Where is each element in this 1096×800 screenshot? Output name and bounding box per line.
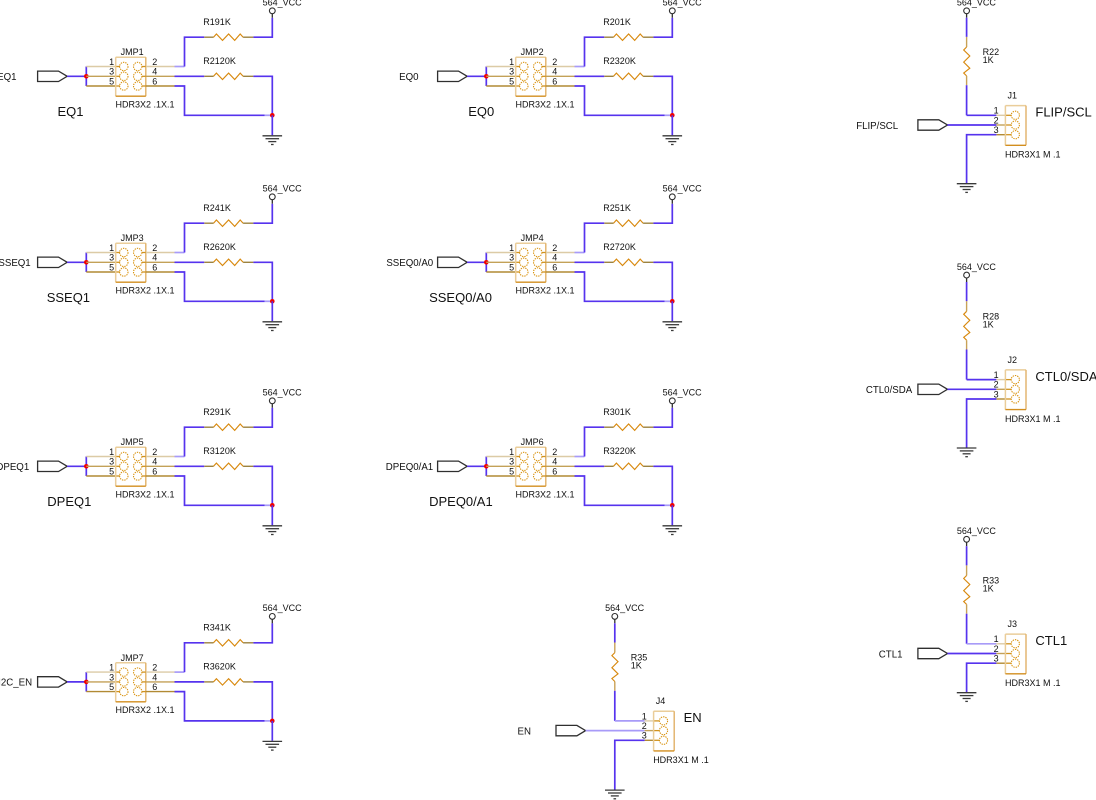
svg-text:3: 3 <box>994 125 999 135</box>
wire JMP6 pin 6 lead <box>542 475 546 477</box>
wire JMP5 pin 4 to resistor R31 <box>175 465 205 467</box>
svg-text:3: 3 <box>994 389 999 399</box>
wire EQ1 port to junction <box>67 75 86 77</box>
wire SSEQ1 port to junction <box>67 261 86 263</box>
svg-text:5: 5 <box>109 262 114 272</box>
resistor R30 1K <box>604 424 653 430</box>
svg-text:3: 3 <box>509 457 514 467</box>
wire JMP5 pin 3 lead <box>86 465 115 467</box>
port CTL1 <box>918 648 948 658</box>
wire R31 to ground junction <box>253 466 272 505</box>
svg-text:3: 3 <box>109 457 114 467</box>
svg-text:J3: J3 <box>1008 619 1018 629</box>
svg-text:R301K: R301K <box>603 407 631 417</box>
wire JMP3 pin 6 down run <box>175 272 265 301</box>
svg-text:2: 2 <box>152 663 157 673</box>
svg-text:R3120K: R3120K <box>203 446 236 456</box>
wire JMP5 pin 2 up to resistor row <box>185 427 205 456</box>
wire J3 pin 3 lead <box>996 662 1005 664</box>
wire JMP1 pin 4 lead <box>142 75 146 77</box>
wire R29 to power <box>253 408 272 428</box>
wire JMP7 pin 1 lead <box>86 671 115 673</box>
wire R23 to ground junction <box>653 76 672 115</box>
svg-text:5: 5 <box>109 682 114 692</box>
wire JMP1 pin 6 lead <box>142 85 146 87</box>
wire power to resistor R22 <box>966 18 968 37</box>
svg-text:6: 6 <box>152 682 157 692</box>
svg-text:2: 2 <box>994 115 999 125</box>
svg-text:2: 2 <box>994 644 999 654</box>
svg-text:3: 3 <box>109 253 114 263</box>
pin numbers JMP4 <box>509 243 557 273</box>
svg-text:1K: 1K <box>983 319 994 329</box>
svg-text:R251K: R251K <box>603 203 631 213</box>
svg-text:4: 4 <box>552 253 557 263</box>
svg-text:R2320K: R2320K <box>603 56 636 66</box>
svg-text:JMP1: JMP1 <box>121 47 144 57</box>
resistor R22 1K <box>964 37 970 85</box>
wire EQ0 port to junction <box>467 75 486 77</box>
wire R32 to ground junction <box>653 466 672 505</box>
svg-text:3: 3 <box>642 731 647 741</box>
wire JMP1 pin 4 to resistor R21 <box>175 75 205 77</box>
svg-text:4: 4 <box>152 253 157 263</box>
wire J4 pin 3 lead <box>645 739 654 741</box>
ground <box>263 322 283 331</box>
wire JMP4 pin 5 lead <box>486 271 515 273</box>
resistor R19 1K <box>204 34 253 40</box>
wire resistor R33 down to pin 1 row <box>966 614 968 644</box>
wire power to resistor R33 <box>966 546 968 565</box>
svg-text:3: 3 <box>509 253 514 263</box>
wire resistor R22 down to pin 1 row <box>966 85 968 115</box>
pin numbers J4 <box>642 711 647 740</box>
svg-text:DPEQ1: DPEQ1 <box>47 494 91 509</box>
svg-text:EQ1: EQ1 <box>58 104 84 119</box>
svg-text:R3220K: R3220K <box>603 446 636 456</box>
svg-text:3: 3 <box>994 654 999 664</box>
wire JMP6 pin 2 lead <box>542 456 546 458</box>
wire JMP4 pin 2 lead <box>542 252 546 254</box>
svg-text:CTL0/SDA: CTL0/SDA <box>866 385 913 396</box>
svg-text:2: 2 <box>552 447 557 457</box>
wire JMP2 pin 5 lead <box>486 85 515 87</box>
pin numbers J2 <box>994 370 999 399</box>
wire J3 pin 3 to ground <box>967 663 997 692</box>
wire R30 to power <box>653 408 672 428</box>
header JMP2 <box>516 57 546 96</box>
svg-text:JMP2: JMP2 <box>521 47 544 57</box>
svg-text:2: 2 <box>552 57 557 67</box>
power symbol 564_VCC <box>957 526 997 546</box>
wire J1 pin 2 lead <box>996 124 1005 126</box>
wire into ground junction <box>265 300 272 302</box>
svg-text:2: 2 <box>152 57 157 67</box>
ground <box>663 526 683 535</box>
port DPEQ1 <box>38 461 68 471</box>
svg-text:564_VCC: 564_VCC <box>263 184 303 194</box>
wire JMP5 pin 1 lead <box>86 456 115 458</box>
svg-text:HDR3X2 .1X.1: HDR3X2 .1X.1 <box>116 286 175 296</box>
svg-text:3: 3 <box>109 67 114 77</box>
ground <box>957 693 977 702</box>
wire JMP4 pin 6 lead <box>542 271 546 273</box>
wire JMP3 pin 6 lead <box>142 271 146 273</box>
wire J4 pin 2 lead <box>645 730 654 732</box>
svg-text:HDR3X1 M .1: HDR3X1 M .1 <box>1005 414 1061 424</box>
port I2C_EN <box>38 677 68 687</box>
svg-text:I2C_EN: I2C_EN <box>0 678 32 689</box>
svg-text:6: 6 <box>152 76 157 86</box>
svg-text:2: 2 <box>552 243 557 253</box>
svg-text:1: 1 <box>509 447 514 457</box>
junction node I2C_EN <box>84 680 89 685</box>
junction ground node EQ0 <box>670 113 675 118</box>
wire JMP2 pin 6 lead <box>542 85 546 87</box>
svg-text:1: 1 <box>994 106 999 116</box>
svg-text:1: 1 <box>994 634 999 644</box>
resistor R27 20K <box>604 259 653 265</box>
svg-text:1K: 1K <box>983 584 994 594</box>
wire into ground junction <box>265 114 272 116</box>
wire into ground junction <box>665 114 672 116</box>
resistor R36 20K <box>204 679 253 685</box>
svg-text:5: 5 <box>109 76 114 86</box>
svg-text:EQ1: EQ1 <box>0 72 17 83</box>
svg-text:R191K: R191K <box>203 17 231 27</box>
port EN <box>556 725 586 735</box>
header JMP5 <box>116 447 146 486</box>
wire EQ1 input riser <box>85 67 87 87</box>
svg-text:2: 2 <box>152 447 157 457</box>
svg-text:564_VCC: 564_VCC <box>605 603 645 613</box>
header J2 <box>1005 370 1026 410</box>
wire J2 pin 2 lead <box>996 388 1005 390</box>
resistor R31 20K <box>204 463 253 469</box>
port CTL0/SDA <box>918 384 948 394</box>
svg-text:5: 5 <box>509 262 514 272</box>
power symbol 564_VCC <box>605 603 645 623</box>
pin numbers JMP5 <box>109 447 157 477</box>
power symbol 564_VCC <box>663 184 703 204</box>
svg-text:J4: J4 <box>656 696 666 706</box>
resistor R32 20K <box>604 463 653 469</box>
resistor R20 1K <box>604 34 653 40</box>
wire EQ0 input riser <box>485 67 487 87</box>
wire J2 pin 3 lead <box>996 398 1005 400</box>
wire JMP7 pin 6 lead <box>142 691 146 693</box>
junction ground node SSEQ0/A0 <box>670 299 675 304</box>
power symbol 564_VCC <box>957 262 997 282</box>
wire JMP4 pin 4 lead <box>542 261 546 263</box>
wire JMP2 pin 1 lead <box>486 66 515 68</box>
svg-text:1: 1 <box>109 243 114 253</box>
pin numbers JMP2 <box>509 57 557 87</box>
wire JMP2 pin 4 to resistor R23 <box>575 75 605 77</box>
svg-text:HDR3X1 M .1: HDR3X1 M .1 <box>1005 678 1061 688</box>
wire R20 to power <box>653 18 672 38</box>
wire I2C_EN input riser <box>85 672 87 692</box>
svg-text:564_VCC: 564_VCC <box>957 262 997 272</box>
ground <box>605 790 625 799</box>
svg-text:1K: 1K <box>983 55 994 65</box>
wire J3 pin 2 lead <box>996 653 1005 655</box>
svg-text:1: 1 <box>509 57 514 67</box>
svg-text:564_VCC: 564_VCC <box>663 0 703 8</box>
wire JMP3 pin 5 lead <box>86 271 115 273</box>
junction node EQ0 <box>484 74 489 79</box>
wire R26 to ground junction <box>253 262 272 301</box>
wire JMP1 pin 1 lead <box>86 66 115 68</box>
svg-text:3: 3 <box>509 67 514 77</box>
svg-text:R341K: R341K <box>203 623 231 633</box>
svg-text:DPEQ0/A1: DPEQ0/A1 <box>429 494 493 509</box>
pin numbers J3 <box>994 634 999 663</box>
junction node EQ1 <box>84 74 89 79</box>
header J3 <box>1005 634 1026 674</box>
wire JMP4 pin 2 stub <box>575 252 585 254</box>
header JMP6 <box>516 447 546 486</box>
wire JMP1 pin 2 up to resistor row <box>185 37 205 66</box>
resistor R33 1K <box>964 565 970 613</box>
wire DPEQ0/A1 input riser <box>485 457 487 477</box>
wire into ground junction <box>665 300 672 302</box>
wire JMP5 pin 2 lead <box>142 456 146 458</box>
wire resistor R28 down to pin 1 row <box>966 350 968 380</box>
power symbol 564_VCC <box>957 0 997 18</box>
svg-text:J1: J1 <box>1008 91 1018 101</box>
wire JMP7 pin 4 lead <box>142 681 146 683</box>
svg-text:564_VCC: 564_VCC <box>263 0 303 8</box>
svg-text:1: 1 <box>109 57 114 67</box>
wire DPEQ1 port to junction <box>67 465 86 467</box>
svg-text:JMP6: JMP6 <box>521 437 544 447</box>
wire CTL0/SDA port to J2 pin 2 <box>948 388 997 390</box>
ground <box>263 136 283 145</box>
wire into ground junction <box>265 720 272 722</box>
wire power to resistor R35 <box>614 623 616 642</box>
svg-text:SSEQ0/A0: SSEQ0/A0 <box>386 258 433 269</box>
wire JMP6 pin 6 down run <box>575 476 665 505</box>
junction ground node DPEQ1 <box>270 503 275 508</box>
power symbol 564_VCC <box>663 388 703 408</box>
svg-text:4: 4 <box>152 67 157 77</box>
svg-text:DPEQ1: DPEQ1 <box>0 462 29 473</box>
resistor R25 1K <box>604 220 653 226</box>
ground <box>263 526 283 535</box>
svg-text:3: 3 <box>109 672 114 682</box>
wire to J2 pin 1 <box>967 379 997 381</box>
wire JMP3 pin 2 up to resistor row <box>185 223 205 252</box>
wire JMP6 pin 4 lead <box>542 465 546 467</box>
resistor R24 1K <box>204 220 253 226</box>
wire R24 to power <box>253 204 272 224</box>
wire R25 to power <box>653 204 672 224</box>
port SSEQ0/A0 <box>438 257 468 267</box>
wire CTL1 port to J3 pin 2 <box>948 653 997 655</box>
svg-text:HDR3X2 .1X.1: HDR3X2 .1X.1 <box>516 100 575 110</box>
junction node SSEQ1 <box>84 260 89 265</box>
svg-text:HDR3X1 M .1: HDR3X1 M .1 <box>1005 150 1061 160</box>
wire J1 pin 3 to ground <box>967 135 997 184</box>
wire JMP3 pin 3 lead <box>86 261 115 263</box>
wire power to resistor R28 <box>966 282 968 301</box>
svg-text:1: 1 <box>994 370 999 380</box>
power symbol 564_VCC <box>263 0 303 18</box>
svg-text:HDR3X2 .1X.1: HDR3X2 .1X.1 <box>116 100 175 110</box>
wire SSEQ1 input riser <box>85 253 87 273</box>
wire JMP5 pin 6 down run <box>175 476 265 505</box>
resistor R35 1K <box>612 643 618 691</box>
svg-text:HDR3X2 .1X.1: HDR3X2 .1X.1 <box>116 490 175 500</box>
resistor R34 1K <box>204 640 253 646</box>
wire I2C_EN port to junction <box>67 681 86 683</box>
wire into ground junction <box>265 504 272 506</box>
header JMP3 <box>116 243 146 282</box>
wire junction to ground <box>271 115 273 135</box>
svg-text:6: 6 <box>552 76 557 86</box>
resistor R21 20K <box>204 73 253 79</box>
wire JMP2 pin 2 lead <box>542 66 546 68</box>
svg-text:2: 2 <box>642 721 647 731</box>
junction ground node DPEQ0/A1 <box>670 503 675 508</box>
wire JMP7 pin 3 lead <box>86 681 115 683</box>
svg-text:6: 6 <box>152 262 157 272</box>
svg-text:4: 4 <box>152 457 157 467</box>
port EQ0 <box>438 71 468 81</box>
wire JMP3 pin 2 lead <box>142 252 146 254</box>
svg-text:R2620K: R2620K <box>203 242 236 252</box>
svg-text:6: 6 <box>552 466 557 476</box>
wire JMP7 pin 6 down run <box>175 692 265 721</box>
svg-text:FLIP/SCL: FLIP/SCL <box>1035 105 1091 120</box>
svg-text:SSEQ0/A0: SSEQ0/A0 <box>429 290 492 305</box>
wire JMP6 pin 5 lead <box>486 475 515 477</box>
junction ground node SSEQ1 <box>270 299 275 304</box>
junction node DPEQ1 <box>84 464 89 469</box>
wire JMP4 pin 1 lead <box>486 252 515 254</box>
svg-text:J2: J2 <box>1008 355 1018 365</box>
svg-text:R241K: R241K <box>203 203 231 213</box>
wire to J1 pin 1 <box>967 114 997 116</box>
svg-text:564_VCC: 564_VCC <box>957 0 997 8</box>
wire JMP2 pin 4 lead <box>542 75 546 77</box>
svg-text:2: 2 <box>152 243 157 253</box>
wire J1 pin 3 lead <box>996 134 1005 136</box>
wire SSEQ0/A0 port to junction <box>467 261 486 263</box>
power symbol 564_VCC <box>263 388 303 408</box>
svg-text:DPEQ0/A1: DPEQ0/A1 <box>386 462 433 473</box>
svg-text:R201K: R201K <box>603 17 631 27</box>
wire R21 to ground junction <box>253 76 272 115</box>
svg-text:EN: EN <box>518 726 531 737</box>
wire junction to ground <box>671 505 673 525</box>
wire junction to ground <box>271 721 273 741</box>
wire JMP7 pin 2 up to resistor row <box>185 643 205 672</box>
junction node DPEQ0/A1 <box>484 464 489 469</box>
svg-text:1: 1 <box>642 711 647 721</box>
svg-text:6: 6 <box>152 466 157 476</box>
resistor R26 20K <box>204 259 253 265</box>
svg-text:564_VCC: 564_VCC <box>957 526 997 536</box>
wire SSEQ0/A0 input riser <box>485 253 487 273</box>
wire J2 pin 3 to ground <box>967 399 997 448</box>
svg-text:2: 2 <box>994 380 999 390</box>
pin numbers JMP3 <box>109 243 157 273</box>
wire junction to ground <box>671 115 673 135</box>
wire JMP1 pin 5 lead <box>86 85 115 87</box>
svg-text:4: 4 <box>552 67 557 77</box>
wire JMP7 pin 2 stub <box>175 671 185 673</box>
wire JMP1 pin 6 down run <box>175 86 265 115</box>
wire JMP1 pin 3 lead <box>86 75 115 77</box>
svg-text:HDR3X1 M .1: HDR3X1 M .1 <box>653 755 709 765</box>
svg-text:HDR3X2 .1X.1: HDR3X2 .1X.1 <box>516 490 575 500</box>
pin numbers JMP7 <box>109 663 157 693</box>
svg-text:4: 4 <box>152 672 157 682</box>
wire junction to ground <box>271 301 273 321</box>
svg-text:1: 1 <box>509 243 514 253</box>
svg-text:564_VCC: 564_VCC <box>263 603 303 613</box>
svg-text:FLIP/SCL: FLIP/SCL <box>856 121 899 132</box>
svg-text:SSEQ1: SSEQ1 <box>47 290 90 305</box>
wire FLIP/SCL port to J1 pin 2 <box>948 124 997 126</box>
wire R34 to power <box>253 623 272 643</box>
wire JMP5 pin 2 stub <box>175 456 185 458</box>
wire R36 to ground junction <box>253 682 272 721</box>
wire JMP2 pin 6 down run <box>575 86 665 115</box>
wire to J4 pin 1 <box>615 720 645 722</box>
wire J4 pin 1 lead <box>645 720 654 722</box>
svg-text:EN: EN <box>684 710 702 725</box>
wire JMP4 pin 4 to resistor R27 <box>575 261 605 263</box>
wire JMP5 pin 5 lead <box>86 475 115 477</box>
port DPEQ0/A1 <box>438 461 468 471</box>
resistor R28 1K <box>964 301 970 349</box>
wire JMP2 pin 2 up to resistor row <box>585 37 605 66</box>
wire R27 to ground junction <box>653 262 672 301</box>
wire JMP3 pin 4 to resistor R26 <box>175 261 205 263</box>
svg-text:564_VCC: 564_VCC <box>663 184 703 194</box>
wire JMP6 pin 1 lead <box>486 456 515 458</box>
wire JMP7 pin 2 lead <box>142 671 146 673</box>
wire JMP2 pin 3 lead <box>486 75 515 77</box>
svg-text:R2120K: R2120K <box>203 56 236 66</box>
header JMP7 <box>116 663 146 702</box>
junction ground node EQ1 <box>270 113 275 118</box>
wire J3 pin 1 lead <box>996 643 1005 645</box>
junction node SSEQ0/A0 <box>484 260 489 265</box>
wire J1 pin 1 lead <box>996 114 1005 116</box>
svg-text:6: 6 <box>552 262 557 272</box>
wire junction to ground <box>271 505 273 525</box>
header J1 <box>1005 106 1026 146</box>
svg-text:564_VCC: 564_VCC <box>263 388 303 398</box>
svg-text:SSEQ1: SSEQ1 <box>0 258 31 269</box>
svg-text:JMP3: JMP3 <box>121 233 144 243</box>
pin numbers JMP1 <box>109 57 157 87</box>
wire JMP5 pin 4 lead <box>142 465 146 467</box>
port EQ1 <box>38 71 68 81</box>
svg-text:JMP5: JMP5 <box>121 437 144 447</box>
wire JMP6 pin 4 to resistor R32 <box>575 465 605 467</box>
svg-text:R3620K: R3620K <box>203 662 236 672</box>
wire into ground junction <box>665 504 672 506</box>
svg-text:1: 1 <box>109 447 114 457</box>
wire JMP7 pin 5 lead <box>86 691 115 693</box>
svg-text:JMP7: JMP7 <box>121 653 144 663</box>
ground <box>663 136 683 145</box>
